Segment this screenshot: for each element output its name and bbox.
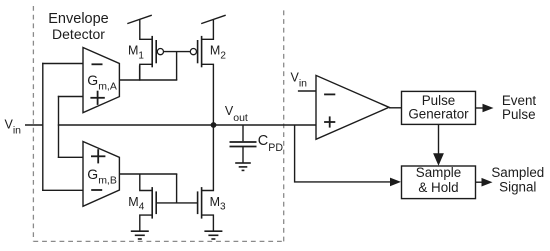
ground below M4	[131, 231, 149, 239]
transistor M2 (PMOS)	[190, 19, 213, 125]
label Event Pulse	[502, 93, 537, 122]
wire Gm,B output net	[119, 173, 177, 175]
svg-text:Detector: Detector	[52, 26, 105, 42]
label Vin (comparator input)	[291, 71, 308, 90]
wire inverting input bus vertical	[42, 63, 44, 191]
dashed box envelope detector right edge	[283, 8, 285, 241]
transistor M1 (PMOS)	[140, 19, 164, 80]
wire gate link M1 M2	[164, 51, 191, 53]
wire comparator output	[389, 107, 402, 109]
svg-text:Sample: Sample	[416, 165, 461, 180]
wire Gm,B inverting input	[42, 189, 83, 191]
wire M3 drain from Vout	[202, 125, 214, 191]
arrow Pulse Generator to Event Pulse	[476, 104, 494, 113]
op-amp comparator	[316, 75, 389, 139]
svg-text:Gm,B: Gm,B	[87, 166, 117, 186]
label Sampled Signal	[491, 165, 544, 194]
wire Vout rail	[58, 124, 316, 126]
svg-text:Vin: Vin	[291, 71, 308, 90]
label M1	[128, 44, 144, 62]
ground below M3	[204, 231, 222, 239]
svg-text:Gm,A: Gm,A	[87, 72, 117, 92]
label Envelope Detector	[48, 11, 108, 42]
block Sample and Hold	[402, 165, 476, 198]
dashed box envelope detector bottom edge	[33, 240, 283, 242]
power VDD slash above M1	[127, 15, 152, 23]
transistor M4 (NMOS)	[140, 187, 156, 231]
wire Vin input	[25, 124, 44, 126]
dashed box envelope detector left edge	[32, 6, 34, 241]
wire gate drop to mirror M4 M3	[176, 174, 178, 203]
power VDD slash above M2	[201, 15, 226, 23]
svg-text:Signal: Signal	[499, 179, 536, 194]
op-amp Gm,A	[83, 48, 119, 113]
label M3	[210, 195, 226, 213]
label CPD	[258, 133, 284, 154]
label Vin (left input)	[5, 117, 22, 136]
svg-text:Pulse: Pulse	[502, 107, 536, 122]
wire Gm,A inverting input	[42, 63, 83, 65]
arrow Sample and Hold to Sampled Signal	[476, 178, 493, 187]
ground below CPD	[235, 163, 251, 170]
transistor M3 (NMOS)	[198, 187, 214, 231]
arrow into Sample and Hold	[390, 178, 401, 187]
wire gate drop to mirror M1 M2	[176, 52, 178, 80]
op-amp Gm,B	[83, 142, 119, 207]
label Vout	[225, 104, 248, 124]
arrow Pulse Generator to Sample and Hold	[433, 124, 444, 165]
wire Gm,A output net	[119, 79, 177, 81]
node Vout junction dot	[211, 122, 217, 128]
svg-text:Envelope: Envelope	[48, 11, 108, 27]
wire Gm,B noninverting input	[58, 156, 84, 158]
svg-text:Vin: Vin	[5, 117, 22, 136]
svg-text:M2: M2	[210, 44, 226, 62]
svg-text:Generator: Generator	[408, 107, 469, 122]
wire M4 drain stub	[140, 174, 152, 191]
svg-text:& Hold: & Hold	[418, 180, 458, 195]
label M2	[210, 44, 226, 62]
label M4	[128, 195, 144, 213]
block Pulse Generator	[402, 91, 476, 124]
wire M1 drain stub	[139, 65, 141, 80]
wire feedback bus vertical	[58, 96, 60, 158]
svg-text:Pulse: Pulse	[422, 93, 456, 108]
svg-text:Vout: Vout	[225, 104, 248, 124]
wire Vout to Sample and Hold	[295, 125, 391, 182]
svg-text:M4: M4	[128, 195, 144, 213]
wire Gm,A noninverting input	[58, 96, 84, 98]
capacitor CPD	[230, 125, 257, 163]
wire comparator inverting input stub	[298, 90, 316, 92]
svg-text:CPD: CPD	[258, 133, 284, 154]
svg-text:M1: M1	[128, 44, 144, 62]
svg-text:M3: M3	[210, 195, 226, 213]
wire gate link M4 M3	[156, 202, 197, 204]
svg-text:Sampled: Sampled	[491, 165, 544, 180]
